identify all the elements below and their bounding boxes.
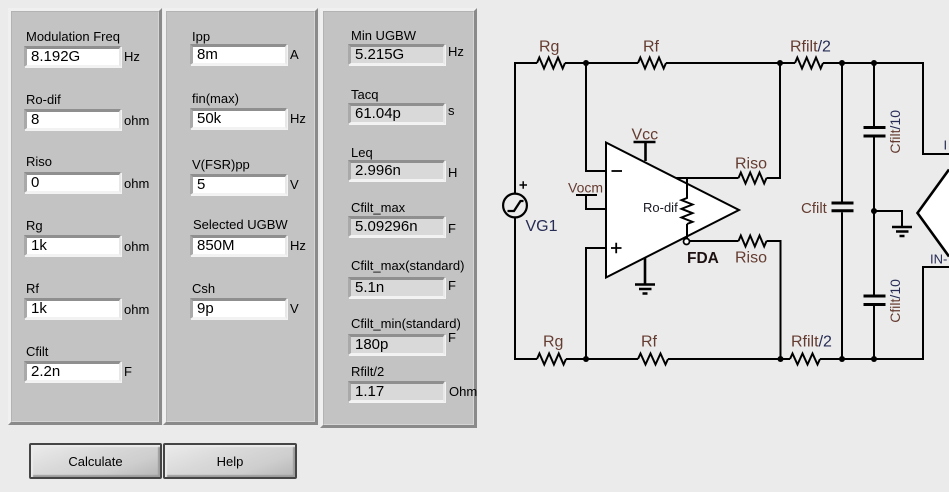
capacitor Cfilt/10 (upper) bbox=[873, 62, 875, 211]
resistor Rg (top) bbox=[537, 58, 565, 69]
svg-text:Ro-dif: Ro-dif bbox=[643, 200, 678, 215]
label Modulation Freq bbox=[26, 29, 120, 44]
node: FDA negative output (open circle) bbox=[684, 239, 690, 245]
unit label ohm bbox=[124, 113, 149, 128]
indicator field Cfilt_max = 5.09296n bbox=[348, 216, 445, 237]
svg-text:Cfilt/10: Cfilt/10 bbox=[887, 279, 903, 323]
svg-text:Rg: Rg bbox=[539, 39, 559, 56]
unit label Hz bbox=[290, 238, 306, 253]
input field Ro-dif = 8 bbox=[24, 109, 121, 130]
label Rf bbox=[26, 281, 39, 296]
label Csh bbox=[192, 281, 215, 296]
label Tacq bbox=[351, 87, 378, 102]
wire: Riso down to bottom rail bbox=[767, 241, 781, 359]
label Cfilt_max(standard) bbox=[351, 258, 464, 273]
input field Csh = 9p bbox=[190, 298, 287, 319]
label Cfilt bbox=[26, 344, 48, 359]
wire: top rail, Rg to Rf bbox=[565, 62, 638, 64]
unit label s bbox=[448, 103, 455, 118]
unit label V bbox=[290, 177, 299, 192]
indicator field Cfilt_max(standard) = 5.1n bbox=[348, 277, 445, 298]
label Ro-dif bbox=[26, 92, 61, 107]
junction: Cfilt bottom bbox=[839, 356, 845, 362]
resistor Rg (bottom) bbox=[537, 354, 566, 365]
unit label F bbox=[448, 330, 456, 345]
panel: outputs column bbox=[320, 8, 477, 428]
label Selected UGBW bbox=[193, 217, 288, 232]
VG1 waveform glyph bbox=[508, 201, 524, 211]
junction: bottom rail / Riso feedback bbox=[778, 356, 784, 362]
label Ipp bbox=[192, 29, 210, 44]
unit label ohm bbox=[124, 176, 149, 191]
wire: bottom rail left segment bbox=[514, 358, 537, 360]
node Vocm stub bbox=[576, 195, 606, 209]
svg-text:Rf: Rf bbox=[641, 334, 658, 351]
input field Ipp = 8m bbox=[190, 44, 287, 65]
input field Cfilt = 2.2n bbox=[24, 361, 121, 382]
input field fin(max) = 50k bbox=[190, 108, 287, 129]
panel: inputs column 2 bbox=[163, 8, 318, 425]
svg-text:Cfilt: Cfilt bbox=[801, 200, 828, 217]
indicator field Rfilt/2 = 1.17 bbox=[348, 381, 445, 402]
ground (Cfilt/10 midpoint) bbox=[892, 227, 912, 236]
unit label Hz bbox=[448, 44, 464, 59]
unit label Ohm bbox=[449, 384, 477, 399]
ADC input chevron bbox=[918, 170, 949, 257]
svg-text:IN-: IN- bbox=[930, 252, 947, 267]
wire: midpoint to ground bbox=[874, 211, 902, 227]
resistor Rfilt/2 (bottom) bbox=[790, 354, 820, 365]
unit label ohm bbox=[124, 239, 149, 254]
capacitor Cfilt/10 (lower) bbox=[873, 211, 875, 360]
junction: Cfilt/10 upper at top rail bbox=[871, 60, 877, 66]
junction: Cfilt/10 midpoint bbox=[871, 208, 877, 214]
ground under FDA bbox=[635, 258, 655, 294]
label Leq bbox=[351, 145, 373, 160]
indicator field Leq = 2.996n bbox=[348, 160, 445, 181]
indicator field Tacq = 61.04p bbox=[348, 103, 445, 124]
wire: top rail left segment bbox=[515, 62, 537, 64]
wire: right rise to ADC IN- pin bbox=[923, 267, 949, 360]
junction: top rail / inverting branch bbox=[583, 60, 589, 66]
input field Rf = 1k bbox=[24, 298, 121, 319]
power Vcc bar bbox=[634, 142, 656, 161]
FDA minus input mark bbox=[612, 170, 623, 172]
svg-text:Rg: Rg bbox=[543, 334, 563, 351]
svg-text:Vocm: Vocm bbox=[568, 180, 603, 196]
label Cfilt_max bbox=[351, 200, 405, 215]
input field Riso = 0 bbox=[24, 172, 121, 193]
wire: left vertical from top rail to VG1 bbox=[514, 62, 516, 194]
unit label ohm bbox=[124, 302, 149, 317]
capacitor Cfilt (vertical) bbox=[841, 62, 843, 360]
VG1 plus polarity mark bbox=[520, 181, 528, 189]
resistor Ro-dif (vertical, inside FDA) bbox=[682, 178, 693, 239]
wire: bottom rail, Rf to Rfilt/2 bbox=[668, 358, 790, 360]
junction: Cfilt/10 lower at bottom rail bbox=[871, 356, 877, 362]
panel: inputs column 1 bbox=[8, 8, 162, 425]
resistor Rf (top) bbox=[638, 58, 666, 69]
unit label A bbox=[290, 47, 299, 62]
unit label F bbox=[448, 278, 456, 293]
input field Selected UGBW = 850M bbox=[190, 235, 287, 256]
junction: top rail / Riso feedback bbox=[777, 60, 783, 66]
svg-text:Rfilt/2: Rfilt/2 bbox=[790, 39, 831, 56]
wire: Riso up to top rail bbox=[767, 63, 781, 178]
resistor Rfilt/2 (top) bbox=[795, 58, 823, 69]
input field Rg = 1k bbox=[24, 235, 121, 256]
FDA plus input mark bbox=[611, 243, 622, 253]
wire: top rail, Rf to Rfilt/2 bbox=[666, 62, 795, 64]
circuit schematic bbox=[480, 0, 949, 492]
unit label F bbox=[124, 364, 132, 379]
indicator field Cfilt_min(standard) = 180p bbox=[348, 334, 445, 355]
label Min UGBW bbox=[351, 28, 416, 43]
unit label H bbox=[448, 165, 457, 180]
wire: upper output to Riso bbox=[676, 177, 739, 179]
source VG1 circle bbox=[503, 194, 527, 218]
resistor Riso (lower) bbox=[739, 236, 767, 247]
wire: right drop to ADC IN+ pin bbox=[923, 62, 949, 154]
resistor Riso (upper) bbox=[739, 173, 767, 184]
button Calculate bbox=[29, 443, 162, 479]
input field V(FSR)pp = 5 bbox=[190, 174, 287, 195]
label Rfilt/2 bbox=[351, 364, 384, 379]
unit label Hz bbox=[124, 49, 140, 64]
svg-text:Vcc: Vcc bbox=[632, 127, 659, 144]
unit label V bbox=[290, 301, 299, 316]
wire: non-inverting input branch from bottom rail bbox=[586, 248, 606, 359]
label V(FSR)pp bbox=[192, 157, 250, 172]
label fin(max) bbox=[192, 91, 239, 106]
svg-text:Rf: Rf bbox=[643, 39, 660, 56]
wire: bottom rail, Rfilt/2 to right corner bbox=[820, 358, 923, 360]
wire: VG1 to bottom rail bbox=[514, 217, 516, 360]
input field Modulation Freq = 8.192G bbox=[24, 46, 121, 67]
junction: bottom rail / non-inverting branch bbox=[583, 356, 589, 362]
wire: top rail, Rfilt/2 to right corner bbox=[823, 62, 923, 64]
op-amp FDA triangle bbox=[606, 143, 739, 278]
label Cfilt_min(standard) bbox=[351, 316, 461, 331]
svg-text:FDA: FDA bbox=[687, 250, 719, 267]
indicator field Min UGBW = 5.215G bbox=[348, 44, 445, 65]
button Help bbox=[163, 443, 297, 479]
svg-text:Riso: Riso bbox=[735, 250, 767, 267]
resistor Rf (bottom) bbox=[638, 354, 668, 365]
unit label F bbox=[448, 221, 456, 236]
junction: Cfilt top bbox=[839, 60, 845, 66]
svg-text:Riso: Riso bbox=[735, 156, 767, 173]
wire: inverting input branch from top rail bbox=[586, 63, 606, 171]
svg-text:VG1: VG1 bbox=[526, 218, 558, 235]
label Rg bbox=[26, 218, 43, 233]
svg-text:I: I bbox=[944, 138, 948, 153]
unit label Hz bbox=[290, 111, 306, 126]
wire: lower output to Riso bbox=[690, 240, 739, 242]
svg-text:Rfilt/2: Rfilt/2 bbox=[791, 334, 832, 351]
wire: bottom rail, Rg to Rf bbox=[566, 358, 638, 360]
svg-text:Cfilt/10: Cfilt/10 bbox=[887, 110, 903, 154]
label Riso bbox=[26, 154, 52, 169]
